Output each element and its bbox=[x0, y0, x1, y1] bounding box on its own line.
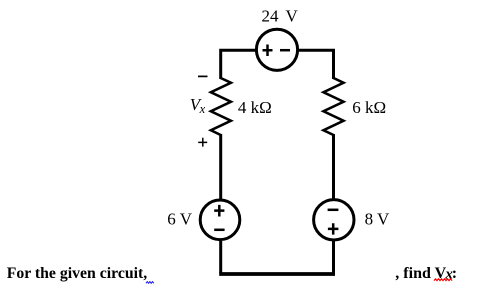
svg-text:4 kΩ: 4 kΩ bbox=[238, 98, 272, 117]
svg-text:For the given circuit,: For the given circuit, bbox=[7, 265, 148, 282]
svg-text:6 V: 6 V bbox=[167, 210, 192, 229]
svg-text:6 kΩ: 6 kΩ bbox=[352, 98, 386, 117]
svg-text:8 V: 8 V bbox=[365, 210, 390, 229]
svg-text:x: x bbox=[199, 102, 206, 116]
svg-text:24 V: 24 V bbox=[262, 7, 299, 26]
svg-text::: : bbox=[452, 265, 457, 282]
